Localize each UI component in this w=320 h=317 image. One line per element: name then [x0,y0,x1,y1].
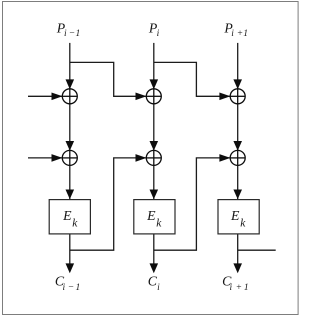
svg-text:1: 1 [244,283,249,293]
svg-text:k: k [240,218,246,230]
svg-text:k: k [72,218,78,230]
svg-text:E: E [146,208,156,223]
svg-text:i: i [230,283,233,293]
svg-text:i: i [64,29,67,39]
svg-text:1: 1 [243,29,248,39]
svg-text:E: E [62,208,72,223]
svg-text:1: 1 [76,29,81,39]
svg-text:i: i [231,29,234,39]
svg-text:+: + [236,283,242,293]
svg-text:−: − [69,29,75,39]
svg-text:i: i [157,29,160,39]
svg-text:k: k [156,218,162,230]
svg-text:i: i [63,283,66,293]
svg-text:1: 1 [76,283,81,293]
svg-text:i: i [157,283,160,293]
svg-text:E: E [230,208,240,223]
svg-text:−: − [68,283,74,293]
